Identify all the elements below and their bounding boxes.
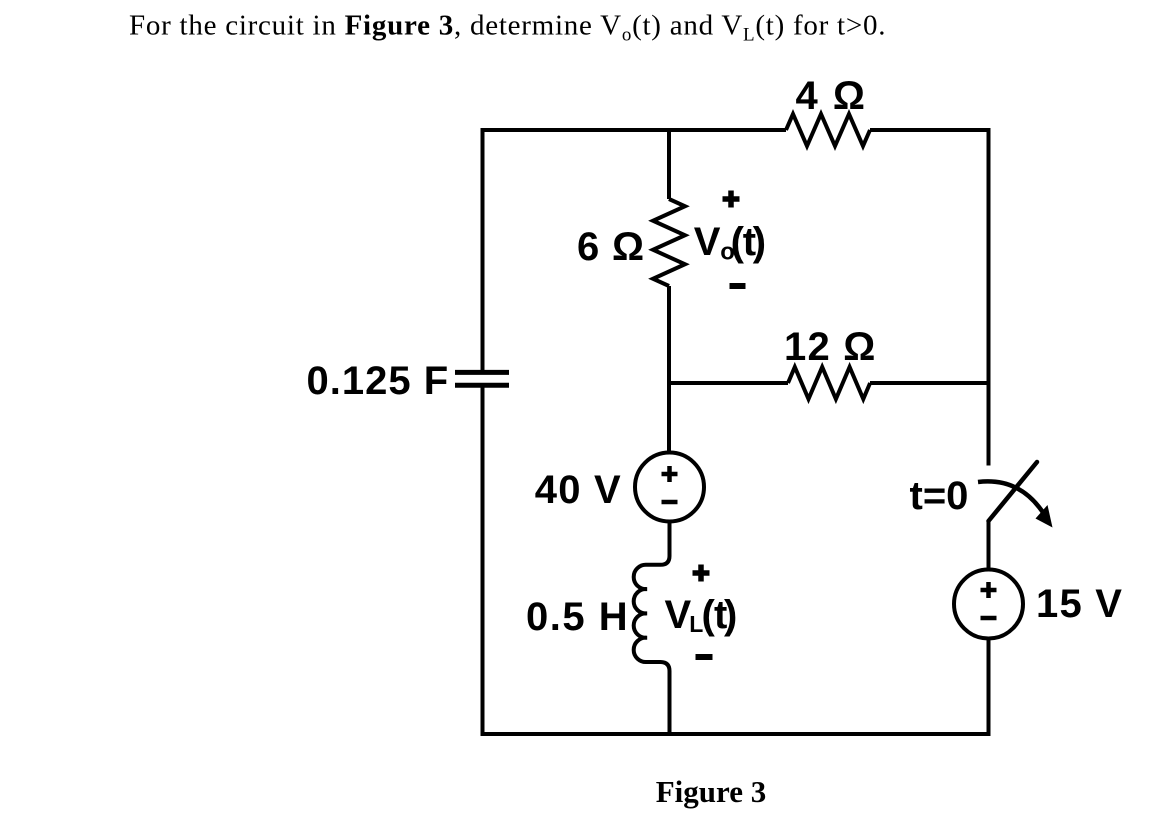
switch arc arrow	[978, 481, 1044, 514]
wire: top wire right portion + right side down to switch contact	[870, 130, 989, 466]
wire: middle horizontal wire right portion	[870, 381, 989, 385]
wire: switch pivot down to 15V source	[987, 520, 991, 570]
svg-text:40 V: 40 V	[535, 468, 622, 512]
resistor R 12ohm	[788, 367, 870, 399]
svg-text:0.5 H: 0.5 H	[526, 595, 629, 639]
plus sign above VL	[693, 565, 710, 582]
svg-text:0.125 F: 0.125 F	[307, 359, 450, 403]
minus sign below Vo	[730, 283, 746, 289]
svg-text:6 Ω: 6 Ω	[577, 225, 645, 269]
svg-text:VL(t): VL(t)	[665, 593, 738, 637]
arrowhead	[1036, 505, 1053, 528]
plus sign above Vo	[723, 191, 740, 208]
svg-text:4 Ω: 4 Ω	[796, 74, 867, 118]
wire: middle horizontal wire left portion	[669, 381, 788, 385]
svg-text:Figure 3: Figure 3	[656, 774, 767, 809]
resistor R 6ohm	[653, 199, 685, 286]
wire: middle branch from top wire to 6ohm resistor	[667, 130, 671, 199]
svg-text:t=0: t=0	[910, 474, 969, 518]
voltage source 40V circle	[635, 453, 704, 522]
switch blade	[989, 462, 1038, 521]
resistor R 4ohm	[786, 114, 870, 146]
wire: left side top + top wire left portion	[483, 130, 787, 372]
minus inside 40V	[662, 500, 678, 505]
inductor L 0.5H with leads	[634, 522, 670, 735]
svg-text:15 V: 15 V	[1036, 582, 1123, 626]
plus inside 40V	[662, 466, 678, 482]
svg-text:For the circuit in Figure 3, d: For the circuit in Figure 3, determine V…	[129, 10, 886, 46]
capacitor C 0.125F plates	[455, 372, 509, 385]
minus inside 15V	[981, 616, 997, 621]
wire: left side below capacitor + bottom wire + right side up to 15V source	[483, 385, 989, 734]
svg-text:Vo(t): Vo(t)	[694, 220, 766, 266]
minus sign below VL	[696, 654, 713, 660]
voltage source 15V circle	[954, 570, 1023, 639]
plus inside 15V	[981, 582, 997, 598]
wire: middle branch from 6ohm through mid-wire junction to 40V source	[667, 286, 671, 453]
svg-text:12 Ω: 12 Ω	[784, 325, 876, 369]
